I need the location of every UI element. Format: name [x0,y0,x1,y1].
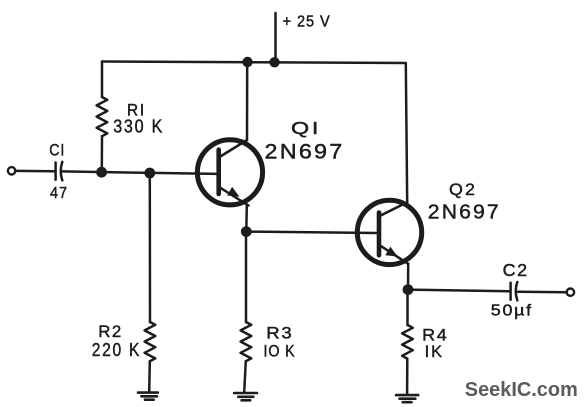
svg-text:Q2: Q2 [449,180,477,199]
wire: node to C2 [408,290,509,292]
capacitor C2 50uf [491,260,533,319]
svg-text:R3: R3 [266,323,293,342]
svg-text:QI: QI [291,118,321,138]
wire: Q2 collector to rail corner [406,63,407,202]
wire: C1 to Q1 base [63,171,218,174]
svg-text:330 K: 330 K [113,116,164,136]
node: rail / +25V junction [269,57,279,67]
resistor R1 330K [97,62,165,173]
svg-text:47: 47 [50,185,68,202]
wire: input to C1 [15,170,54,173]
svg-text:C2: C2 [503,260,529,280]
wire: node to Q2 base [246,232,377,233]
wire: C2 to output [518,290,566,293]
+25V supply lead [276,13,331,63]
wire: Q2 emitter down [407,264,410,290]
svg-text:IK: IK [425,343,445,361]
transistor Q2 2N697 [357,180,501,265]
svg-text:2N697: 2N697 [428,202,501,224]
resistor R2 220K [92,173,156,392]
svg-text:R4: R4 [422,325,448,344]
ground under R4 [396,395,418,402]
node: rail / Q1 collector junction [242,57,252,67]
output terminal [567,289,574,296]
svg-text:+ 25 V: + 25 V [283,14,331,31]
svg-text:220 K: 220 K [92,340,142,360]
svg-text:SeekIC.com: SeekIC.com [465,378,578,401]
wire: Q1 emitter down [245,205,248,232]
input terminal [8,167,15,174]
svg-text:IO K: IO K [264,342,296,360]
svg-text:R2: R2 [98,322,123,341]
node: Q2 emitter / R4 / C2 junction [403,284,414,295]
capacitor C1 47 [49,141,68,202]
svg-text:2N697: 2N697 [265,140,345,163]
node: R1 bottom junction [96,167,107,178]
node: R2 top junction [144,168,155,179]
ground under R2 [138,393,158,400]
ground under R3 [234,393,257,400]
svg-text:CI: CI [49,141,65,159]
node: Q1 emitter / R3 / Q2 base junction [241,226,252,237]
resistor R4 1K [402,290,448,395]
resistor R3 10K [241,232,296,393]
transistor Q1 2N697 [197,118,344,206]
wire: Q1 collector to rail [246,62,249,140]
wire: top supply rail [102,62,406,64]
svg-text:50µf: 50µf [491,303,533,320]
